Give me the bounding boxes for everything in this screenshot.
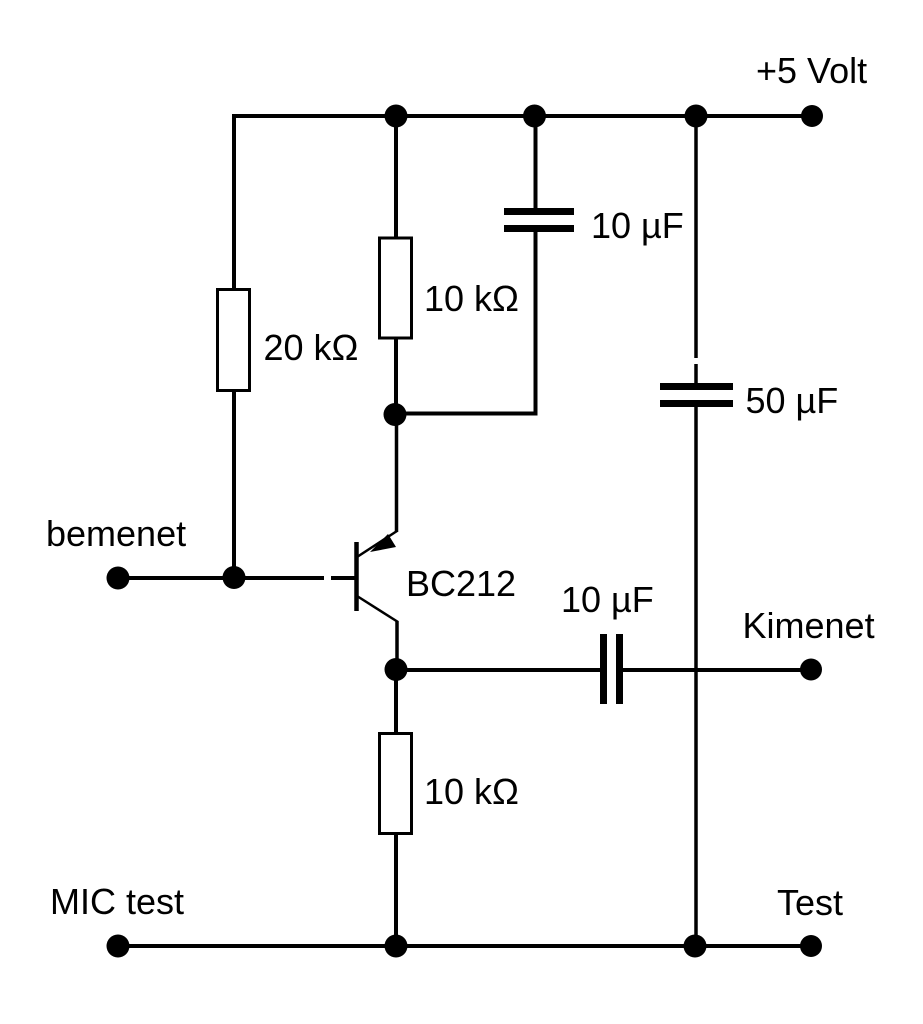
transistor Q1 PNP arrow — [370, 534, 396, 552]
svg-text:MIC test: MIC test — [50, 881, 184, 922]
node MIC test terminal — [107, 935, 130, 958]
transistor Q1 emitter diagonal — [357, 531, 397, 557]
node Test terminal — [800, 935, 822, 957]
wire input line stub at base — [331, 576, 355, 580]
resistor R3 10 kOhm — [380, 734, 412, 834]
wire output left segment — [396, 668, 601, 672]
node bottom middle junction — [385, 935, 408, 958]
svg-text:Kimenet: Kimenet — [743, 605, 875, 646]
capacitor C2 10 uF right plate — [616, 634, 623, 704]
wire right vertical short stub above C3 — [694, 364, 698, 384]
svg-text:+5 Volt: +5 Volt — [756, 50, 867, 91]
svg-text:BC212: BC212 — [406, 563, 516, 604]
node R2/C1 junction — [384, 403, 407, 426]
svg-text:10 kΩ: 10 kΩ — [424, 278, 519, 319]
svg-text:bemenet: bemenet — [46, 513, 186, 554]
wire right vertical upper (rail to gap) — [694, 114, 698, 358]
node +5V terminal — [801, 105, 823, 127]
transistor Q1 collector vertical — [395, 621, 399, 669]
svg-text:10 µF: 10 µF — [561, 579, 654, 620]
wire bottom rail — [118, 944, 811, 948]
capacitor C3 50 uF bottom plate — [660, 400, 733, 407]
svg-text:20 kΩ: 20 kΩ — [264, 327, 359, 368]
wire middle vertical (rail to R2 top) — [394, 114, 398, 239]
svg-text:Test: Test — [777, 882, 843, 923]
node rail junction above C3 — [685, 105, 708, 128]
wire top +5V rail — [233, 114, 812, 118]
wire left vertical lower (R1 bottom to input line) — [232, 390, 236, 578]
wire middle vertical (node to R3 top) — [394, 669, 398, 734]
wire output right segment — [622, 668, 811, 672]
capacitor C1 10 uF bottom plate — [504, 225, 574, 232]
capacitor C2 10 uF left plate — [600, 634, 607, 704]
wire right vertical lower (C3 to bottom rail) — [694, 403, 698, 946]
resistor R2 10 kOhm — [380, 238, 412, 338]
resistor R1 20 kOhm — [218, 290, 250, 391]
node bemenet terminal — [107, 567, 130, 590]
svg-text:50 µF: 50 µF — [746, 380, 839, 421]
capacitor C3 50 uF top plate — [660, 383, 733, 390]
node rail junction above C1 — [523, 105, 546, 128]
svg-text:10 kΩ: 10 kΩ — [424, 771, 519, 812]
transistor Q1 collector diagonal — [357, 596, 398, 622]
node bottom right junction — [684, 935, 707, 958]
wire input line (bemenet to base) — [118, 576, 324, 580]
transistor Q1 base bar — [354, 542, 359, 611]
wire C1 bottom lead L-shape — [396, 231, 536, 414]
wire middle vertical (R2 bottom to node) — [394, 337, 398, 415]
wire left vertical upper (rail to R1 top) — [232, 114, 236, 291]
transistor Q1 BC212 emitter vertical — [395, 414, 399, 532]
wire C1 top lead — [534, 114, 538, 209]
capacitor C1 10 uF top plate — [504, 208, 574, 215]
node Kimenet terminal — [800, 659, 822, 681]
wire middle vertical (R3 bottom to bottom rail) — [394, 833, 398, 946]
svg-text:10 µF: 10 µF — [591, 205, 684, 246]
node rail junction above R2 — [385, 105, 408, 128]
node collector junction — [385, 658, 408, 681]
node input junction — [223, 566, 246, 589]
